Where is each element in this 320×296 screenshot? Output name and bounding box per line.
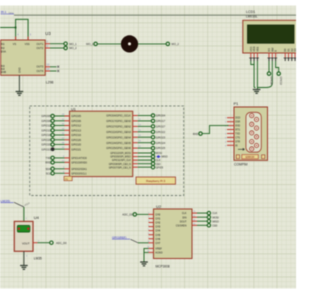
- svg-text:MCP3008: MCP3008: [156, 264, 170, 268]
- pin GPIO26 wire: [54, 138, 69, 140]
- svg-text:GPIO(REF): GPIO(REF): [112, 235, 127, 239]
- terminal RXD (to P1): [193, 132, 202, 136]
- svg-text:GPIO12: GPIO12: [41, 124, 51, 128]
- P1 corner square left: [236, 155, 239, 159]
- svg-text:CH1: CH1: [155, 218, 161, 221]
- svg-text:VOUT: VOUT: [22, 241, 30, 245]
- U1 inside label GPIO14/TXD0: [71, 157, 87, 160]
- svg-text:CLK: CLK: [156, 159, 161, 162]
- svg-text:LM(35): LM(35): [1, 199, 11, 203]
- svg-text:MO_2: MO_2: [69, 46, 77, 50]
- svg-text:E: E: [274, 50, 278, 52]
- Raspberry Pi 3 yellow label: [136, 177, 176, 184]
- P1 pin RXD: [225, 126, 241, 128]
- terminal GPIO13 (U1 left): [41, 128, 54, 132]
- pin GPIO25 wire: [133, 146, 152, 148]
- pin CE0 wire: [133, 163, 152, 165]
- wire VREF/AGND to ground: [144, 248, 149, 262]
- pin MOSI wire: [133, 152, 152, 154]
- terminal GPIO23 (U1 right): [151, 135, 165, 139]
- P1 pin DTR: [225, 141, 240, 143]
- U1 inside label GPIO25/GPIO_GEN6: [106, 146, 131, 150]
- terminal GPIO5 (U1 right SPI): [151, 166, 163, 170]
- wire VEE to ground: [254, 61, 257, 90]
- wire E jogs to terminal: [276, 61, 279, 72]
- svg-text:GPIO13: GPIO13: [41, 128, 51, 132]
- svg-text:AGND: AGND: [155, 252, 162, 255]
- svg-text:Volts: Volts: [9, 12, 15, 15]
- pin RXD wire: [54, 160, 69, 162]
- U3 value label L298: [46, 80, 54, 84]
- pin GPIO13 wire: [54, 128, 69, 130]
- terminal GPIO27 (U1 right): [151, 125, 165, 129]
- svg-text:GPIO17: GPIO17: [156, 119, 166, 123]
- svg-text:OUT2: OUT2: [36, 46, 43, 50]
- svg-text:GPIO15/RXD0: GPIO15/RXD0: [71, 162, 87, 165]
- svg-text:LM35: LM35: [34, 256, 42, 260]
- net label GPIO4(REF) blue: [112, 235, 130, 239]
- U1 inside label GPIO04/GPIO_GCLK: [106, 114, 131, 118]
- P1 pin RTS: [225, 130, 240, 132]
- wire ADC_D0 to CH0: [137, 213, 149, 215]
- svg-text:GPIO25/GPIO_GEN6: GPIO25/GPIO_GEN6: [106, 146, 131, 150]
- svg-text:VSS: VSS: [25, 43, 30, 46]
- U2 pin DOUT wire: [192, 219, 207, 221]
- U4 designator: [34, 215, 40, 220]
- terminal MO_2: [64, 46, 77, 50]
- svg-text:DTR: DTR: [235, 141, 240, 143]
- sheet top border line: [14, 14, 296, 16]
- svg-text:RXD: RXD: [193, 132, 199, 136]
- pin OUT1 wire: [45, 43, 64, 45]
- pin GPIO24 wire: [133, 141, 152, 143]
- LCD screen: [248, 25, 295, 43]
- U2 pin VREF: [147, 247, 162, 251]
- P1 pin DSR: [225, 122, 241, 124]
- U2 inside label CLK: [182, 212, 187, 215]
- svg-text:OUT4: OUT4: [36, 69, 43, 73]
- terminal GPIO05 (U1 left): [41, 114, 54, 118]
- pin GPIO04 wire: [133, 114, 152, 116]
- svg-text:GPIO20: GPIO20: [71, 143, 81, 147]
- svg-text:CLK: CLK: [182, 212, 187, 215]
- terminal CLK (U2 right): [207, 211, 217, 215]
- U1 inside label GPIO08/SPI_CE0_N: [109, 163, 131, 166]
- svg-text:RI: RI: [235, 145, 238, 147]
- terminal CE0 (U1 right SPI): [151, 162, 161, 166]
- svg-text:DSR: DSR: [235, 122, 240, 124]
- pin SDA wire: [54, 167, 69, 169]
- wire: [97, 43, 121, 45]
- terminal GPIO12 (U1 left): [41, 124, 54, 128]
- svg-text:CS/SHDN: CS/SHDN: [176, 224, 187, 227]
- svg-text:GPIO11/SPI_CLK: GPIO11/SPI_CLK: [112, 159, 131, 162]
- svg-text:GPIO24: GPIO24: [156, 141, 166, 145]
- ground (below U4): [20, 266, 28, 270]
- svg-text:GPIO16: GPIO16: [71, 133, 81, 137]
- U2 pin AGND: [147, 251, 163, 255]
- U1 inside label GPIO02/SDA1: [71, 168, 87, 171]
- chip U1 Raspberry Pi 3 body: [70, 111, 133, 176]
- LM35 VOUT label: [22, 241, 30, 245]
- svg-text:MISO: MISO: [212, 220, 218, 223]
- svg-text:U2: U2: [156, 204, 162, 209]
- svg-text:GPIO07/SPI_CE1_N: GPIO07/SPI_CE1_N: [109, 166, 131, 169]
- svg-text:CH6: CH6: [155, 238, 161, 241]
- pin GPIO21 wire: [54, 147, 69, 149]
- svg-text:VREF: VREF: [155, 248, 162, 251]
- terminal GPIO06 (U1 left): [41, 119, 54, 123]
- LCD pin E: [274, 50, 278, 61]
- pin SCL wire: [54, 171, 69, 173]
- svg-text:P1: P1: [234, 101, 240, 106]
- LCD pin D3: [293, 48, 297, 61]
- pin VS/VSS stubs: [16, 37, 29, 41]
- U2 inside label DOUT: [180, 220, 187, 223]
- svg-text:GND: GND: [19, 67, 22, 73]
- svg-text:CH3: CH3: [155, 226, 161, 229]
- svg-text:GPIO5: GPIO5: [156, 166, 164, 169]
- ground (below U2): [140, 262, 148, 266]
- wire RXD to P1: [202, 126, 228, 134]
- net label LM(35) blue: [1, 199, 14, 203]
- U2 pin CH0: [148, 213, 161, 217]
- ground (below LCD): [253, 90, 261, 94]
- U1 inside label GPIO22/GPIO_GEN3: [106, 130, 131, 134]
- svg-text:RTS: RTS: [235, 130, 240, 132]
- pin GPIO16 wire: [54, 133, 69, 135]
- LCD pin RS: [267, 48, 271, 61]
- svg-text:MOSI: MOSI: [212, 216, 219, 219]
- P1 pin CTS: [225, 137, 240, 139]
- pin GPIO5 wire: [133, 166, 152, 168]
- sensor U4 LM35 body: [14, 221, 33, 251]
- pin GPIO20 wire: [54, 143, 69, 145]
- terminal GPIO20 (U1 left): [41, 143, 54, 147]
- P1 D-sub hole R3: [254, 135, 258, 139]
- pin GPIO22 wire: [133, 130, 152, 132]
- U1 inside label GPIO15/RXD0: [71, 162, 87, 165]
- svg-text:GPIO06: GPIO06: [71, 119, 81, 123]
- P1 RI arrow: [238, 148, 245, 150]
- svg-text:35.1: 35.1: [1, 10, 7, 14]
- terminal ADC_D0 (U4): [50, 241, 67, 245]
- P1 corner square right: [262, 155, 265, 159]
- wire from left edge: [0, 27, 16, 29]
- svg-text:GPIO17/GPIO_GEN0: GPIO17/GPIO_GEN0: [106, 119, 131, 123]
- U2 designator: [156, 204, 162, 209]
- U1 inside label GPIO03/SCL1: [71, 172, 87, 175]
- svg-text:RXD: RXD: [45, 161, 51, 165]
- U1 inside label GPIO07/SPI_CE1_N: [109, 166, 131, 169]
- pin CLK wire: [133, 159, 152, 161]
- LCD LM016L body: [243, 20, 298, 53]
- P1 D-sub hole L5: [250, 147, 254, 151]
- terminal MISO (U1 right SPI): [151, 155, 167, 159]
- P1 designator: [234, 101, 240, 106]
- svg-text:LCD1: LCD1: [246, 10, 255, 14]
- pin number 14: [47, 68, 50, 71]
- wire VSS elbow: [251, 61, 254, 65]
- svg-text:ERROR: ERROR: [246, 156, 255, 159]
- svg-text:ENB: ENB: [1, 71, 6, 74]
- net label VS supply (top-left, blue): [1, 10, 15, 15]
- svg-text:ADC_D0: ADC_D0: [122, 213, 133, 217]
- svg-text:MO_1: MO_1: [86, 42, 94, 46]
- svg-text:U3: U3: [45, 31, 51, 36]
- svg-text:GPIO06: GPIO06: [41, 119, 51, 123]
- svg-text:GPIO13: GPIO13: [71, 128, 81, 132]
- svg-text:GPIO26: GPIO26: [41, 138, 51, 142]
- svg-text:GPIO26: GPIO26: [71, 138, 81, 142]
- P1 D-sub hole L1: [250, 114, 254, 118]
- U2 pin CS/SHDN wire: [192, 223, 207, 225]
- svg-text:GPIO04: GPIO04: [156, 114, 166, 118]
- P1 pin RI: [225, 145, 238, 147]
- svg-text:OUT3: OUT3: [36, 65, 43, 69]
- pin number 1: [26, 218, 28, 220]
- svg-text:MO_1: MO_1: [69, 42, 77, 46]
- svg-text:GPIO14/TXD0: GPIO14/TXD0: [71, 157, 87, 160]
- pin OUT2 wire: [45, 47, 64, 49]
- U1 designator: [71, 107, 76, 111]
- svg-text:DOUT: DOUT: [180, 220, 187, 223]
- svg-text:CH4: CH4: [155, 230, 161, 233]
- svg-text:GPIO10/SPI_MOSI: GPIO10/SPI_MOSI: [110, 152, 131, 155]
- U3 designator: [45, 31, 51, 36]
- U1 inside label GPIO20: [71, 143, 81, 147]
- U2 pin CH1: [148, 217, 161, 221]
- svg-text:MO_2: MO_2: [172, 42, 180, 46]
- wire to U4 top: [23, 207, 25, 221]
- U1 inside label GPIO10/SPI_MOSI: [110, 152, 131, 155]
- P1 D-sub hole L3: [250, 131, 254, 135]
- P1 value COMPIM: [234, 163, 248, 167]
- P1 D-sub hole R1: [254, 117, 258, 121]
- LM35 green element: [17, 225, 30, 232]
- terminal ADC_D0 (U2 CH0): [122, 213, 136, 217]
- U2 value MCP3008: [156, 264, 170, 268]
- terminal SCL (U1 left): [46, 171, 55, 175]
- LCD pin D1: [287, 48, 291, 61]
- U2 pin DIN wire: [192, 215, 207, 217]
- svg-text:GPIO16: GPIO16: [41, 133, 51, 137]
- connector P1 COMPIM body: [234, 107, 268, 160]
- U1 inside label GPIO12: [71, 124, 81, 128]
- terminal CE0 (U2 right): [207, 224, 218, 228]
- svg-text:GPIO21: GPIO21: [41, 147, 51, 151]
- svg-text:RXD: RXD: [235, 126, 240, 128]
- svg-text:VS: VS: [13, 43, 17, 46]
- terminal GPIO16 (U1 left): [41, 133, 54, 137]
- wire: [138, 43, 166, 45]
- label pointer line: [14, 202, 31, 207]
- svg-text:TXD: TXD: [235, 134, 240, 136]
- U1 inside label GPIO06: [71, 119, 81, 123]
- U1 inside label GPIO23/GPIO_GEN4: [106, 135, 131, 139]
- U1 inside label GPIO16: [71, 133, 81, 137]
- svg-text:GPIO05: GPIO05: [71, 114, 81, 118]
- U3 GND pin wire: [18, 75, 20, 91]
- svg-text:MISO: MISO: [162, 156, 168, 159]
- U2 pin CH3: [148, 225, 161, 229]
- terminal GPIO04 (U1 right): [151, 114, 165, 118]
- pin GPIO27 wire: [133, 124, 152, 126]
- chip U2 MCP3008 body: [154, 209, 193, 259]
- U1 inside label GPIO26: [71, 138, 81, 142]
- svg-text:GPIO19: GPIO19: [279, 77, 281, 86]
- P1 D-sub hole R4: [254, 143, 258, 147]
- U2 pin CH5: [148, 233, 161, 237]
- svg-text:COMPIM: COMPIM: [234, 163, 248, 167]
- svg-text:PD: PD: [65, 179, 68, 181]
- svg-text:IN1: IN1: [1, 43, 6, 46]
- svg-text:SDA: SDA: [45, 167, 51, 171]
- pin GPIO12 wire: [54, 124, 69, 126]
- pin GPIO17 wire: [133, 119, 152, 121]
- svg-text:GPIO21: GPIO21: [71, 147, 81, 151]
- U1 inside label GPIO05: [71, 114, 81, 118]
- terminal SDA (U1 left): [45, 167, 54, 171]
- svg-text:CLK: CLK: [212, 212, 217, 215]
- svg-text:GPIO27/GPIO_GEN2: GPIO27/GPIO_GEN2: [106, 125, 131, 129]
- wire RW curves to ground: [257, 61, 272, 88]
- wire VDD down: [253, 61, 255, 88]
- terminal TXD (U1 left): [46, 156, 55, 160]
- U1 inside label GPIO27/GPIO_GEN2: [106, 125, 131, 129]
- svg-text:GPIO20: GPIO20: [41, 143, 51, 147]
- svg-text:CH7: CH7: [155, 242, 161, 245]
- pin MISO wire: [133, 156, 152, 158]
- svg-text:GPIO27: GPIO27: [156, 125, 166, 129]
- LCD pin VEE: [255, 46, 259, 61]
- svg-text:GPIO12: GPIO12: [71, 124, 81, 128]
- svg-text:LM016L: LM016L: [246, 15, 258, 19]
- svg-text:GPIO25: GPIO25: [156, 146, 166, 150]
- LCD pin VDD: [252, 46, 256, 61]
- svg-text:GPIO22: GPIO22: [156, 130, 166, 134]
- svg-text:U4: U4: [34, 215, 40, 220]
- terminal GPIO19 (E): [277, 72, 281, 86]
- svg-text:ADC_D0: ADC_D0: [56, 241, 67, 245]
- LCD pin VSS: [249, 46, 253, 61]
- P1 pin TXD: [225, 134, 240, 136]
- P1 error yellow label: [242, 155, 258, 159]
- svg-text:Raspberry Pi 3: Raspberry Pi 3: [146, 179, 166, 183]
- svg-text:CH0: CH0: [155, 214, 161, 217]
- pin number 4: [17, 33, 19, 36]
- svg-text:DCD: DCD: [235, 118, 240, 120]
- U2 pin CH4: [148, 229, 161, 233]
- pin OUT3 stub: [45, 66, 59, 68]
- P1 D-sub hole L4: [250, 140, 254, 144]
- terminal MOSI (U1 right SPI): [151, 151, 162, 155]
- LCD pin D0: [283, 48, 287, 61]
- wire to CH7: [138, 242, 149, 244]
- terminal MO_1: [64, 42, 77, 46]
- svg-text:CH5: CH5: [155, 234, 161, 237]
- svg-text:CE0: CE0: [212, 224, 217, 227]
- U1 inside label GPIO13: [71, 128, 81, 132]
- P1 D-sub hole R2: [254, 126, 258, 130]
- P1 pin DCD: [225, 118, 241, 120]
- terminal MISO (U2 right): [207, 220, 219, 224]
- U1 inside label GPIO21: [71, 147, 81, 151]
- svg-text:D3: D3: [293, 48, 296, 52]
- LCD1 value LM016L: [246, 15, 258, 19]
- svg-text:CH2: CH2: [155, 222, 161, 225]
- pin VOUT wire: [33, 241, 50, 243]
- svg-text:GPIO23: GPIO23: [156, 135, 166, 139]
- terminal GPIO25 (U1 right): [151, 146, 165, 150]
- motor M1: [121, 35, 138, 52]
- U2 pin CLK wire: [192, 211, 207, 213]
- terminal GPIO26 (RS): [267, 72, 271, 86]
- terminal CLK (U1 right SPI): [151, 158, 161, 162]
- terminal GPIO17 (U1 right): [151, 119, 165, 123]
- terminal GPIO26 (U1 left): [41, 138, 54, 142]
- svg-text:GPIO24/GPIO_GEN5: GPIO24/GPIO_GEN5: [106, 141, 131, 145]
- svg-text:TXD: TXD: [46, 156, 51, 160]
- LCD pin D2: [290, 48, 294, 61]
- svg-text:CTS: CTS: [235, 137, 240, 139]
- U4 value LM35: [34, 256, 42, 260]
- terminal RXD (U1 left): [45, 161, 54, 165]
- label pointer: [131, 239, 139, 243]
- wire RS to terminal: [268, 61, 270, 72]
- pin number 9: [30, 33, 32, 36]
- svg-text:MOSI: MOSI: [156, 152, 162, 155]
- svg-text:VEE: VEE: [255, 46, 259, 51]
- terminal MOSI (U2 right): [207, 216, 219, 220]
- terminal GPIO24 (U1 right): [151, 141, 165, 145]
- pin GPIO05 wire: [54, 114, 69, 116]
- svg-text:GPIO23/GPIO_GEN4: GPIO23/GPIO_GEN4: [106, 135, 131, 139]
- svg-text:GPIO04/GPIO_GCLK: GPIO04/GPIO_GCLK: [106, 114, 131, 118]
- pin OUT4 stub: [45, 70, 59, 72]
- wire VS/VSS loop above U3: [16, 19, 29, 40]
- U3 inside pin labels: [1, 42, 44, 74]
- U4 GND pin wire: [24, 251, 28, 265]
- U2 inside label CS/SHDN: [176, 224, 187, 227]
- terminal MO_1 (motor left): [86, 42, 97, 46]
- svg-text:GPIO05: GPIO05: [41, 114, 51, 118]
- svg-text:GPIO03/SCL1: GPIO03/SCL1: [71, 172, 87, 175]
- svg-text:L298: L298: [46, 80, 54, 84]
- dashed selection box around U1: [30, 106, 184, 196]
- terminal MO_2 (motor right): [166, 42, 179, 46]
- U1 corner tag box: [64, 176, 72, 181]
- svg-text:OUT1: OUT1: [36, 42, 43, 46]
- U2 pin CH2: [148, 221, 161, 225]
- svg-text:GPIO26: GPIO26: [269, 77, 271, 86]
- svg-text:DIN: DIN: [182, 216, 186, 219]
- U1 inside label GPIO17/GPIO_GEN0: [106, 119, 131, 123]
- P1 D-sub hole L2: [250, 122, 254, 126]
- U2 pin CH6: [148, 237, 161, 241]
- terminal GPIO22 (U1 right): [151, 130, 165, 134]
- ground (below U3): [16, 92, 24, 96]
- svg-text:GPIO02/SDA1: GPIO02/SDA1: [71, 168, 87, 171]
- terminal GPIO21 (U1 left): [41, 147, 54, 151]
- U2 pin CH7: [148, 241, 161, 245]
- pin number 3: [47, 45, 49, 48]
- pin GPIO23 wire: [133, 135, 152, 137]
- U1 inside label GPIO24/GPIO_GEN5: [106, 141, 131, 145]
- pin GPIO06 wire: [54, 119, 69, 121]
- svg-text:GPIO22/GPIO_GEN3: GPIO22/GPIO_GEN3: [106, 130, 131, 134]
- pin number 13: [47, 64, 50, 67]
